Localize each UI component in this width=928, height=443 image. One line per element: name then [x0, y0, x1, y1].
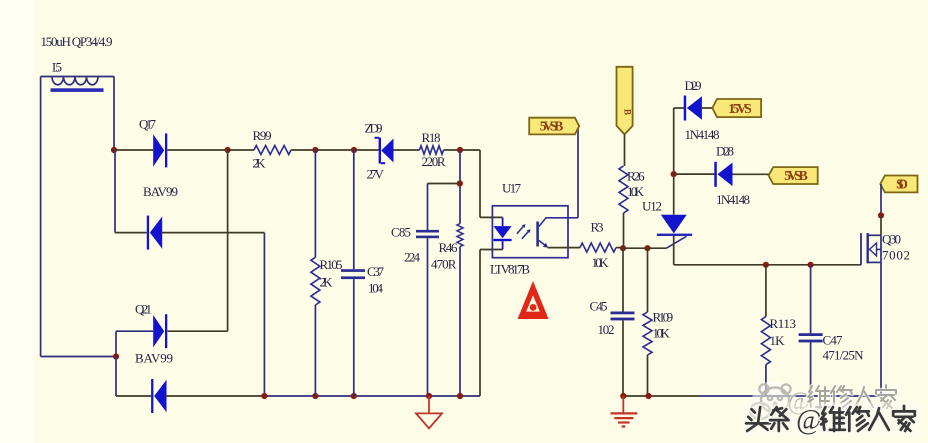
wire	[479, 250, 481, 397]
wire	[115, 357, 117, 397]
wire	[459, 150, 461, 224]
diode Q17 upper	[139, 117, 178, 200]
wire	[480, 249, 503, 251]
wire	[647, 248, 649, 312]
op-amp U17 optocoupler	[490, 181, 578, 277]
wire	[428, 183, 461, 185]
wire	[115, 331, 117, 356]
svg-text:471/25N: 471/25N	[823, 348, 865, 363]
transistor Q30 mosfet	[861, 232, 910, 265]
wire ground rail left	[165, 395, 480, 397]
resistor R105	[311, 257, 343, 305]
wire	[674, 173, 715, 175]
wire	[427, 184, 429, 231]
svg-text:ZD9: ZD9	[365, 121, 383, 136]
wire	[648, 247, 667, 249]
wire	[624, 134, 626, 166]
wire ground rail right	[623, 395, 881, 397]
node D	[351, 147, 357, 153]
net 5VSB flag	[529, 118, 579, 135]
wire	[880, 262, 882, 396]
wire	[291, 149, 315, 151]
wire	[444, 149, 481, 151]
resistor R26	[619, 166, 645, 213]
wire	[880, 215, 882, 235]
wire	[228, 149, 254, 151]
node I	[312, 393, 318, 399]
svg-text:27V: 27V	[367, 167, 385, 182]
wire	[623, 213, 625, 248]
wire	[616, 247, 623, 249]
wire	[427, 238, 429, 396]
capacitor C47	[799, 333, 865, 363]
svg-text:BAV99: BAV99	[143, 184, 178, 199]
svg-text:U17: U17	[502, 181, 522, 196]
svg-text:1N4148: 1N4148	[716, 192, 750, 207]
svg-text:C85: C85	[391, 225, 411, 240]
svg-text:1K: 1K	[770, 333, 786, 348]
wire	[548, 247, 581, 249]
wire	[810, 342, 812, 396]
svg-text:C45: C45	[590, 299, 608, 314]
wire gate row	[674, 264, 861, 266]
net flag vertical	[617, 67, 633, 135]
net 5VSB flag right	[769, 167, 818, 184]
capacitor C37	[341, 264, 385, 296]
wire	[115, 232, 147, 234]
wire	[315, 149, 354, 151]
svg-text:10K: 10K	[592, 255, 610, 270]
watermark	[740, 381, 922, 436]
ground earth	[611, 396, 638, 427]
svg-text:U12: U12	[642, 199, 662, 214]
resistor R46	[431, 224, 463, 272]
resistor R18	[420, 130, 446, 169]
svg-text:1N4148: 1N4148	[685, 127, 720, 142]
svg-text:Q17: Q17	[139, 117, 157, 132]
wire	[623, 247, 648, 249]
svg-text:BAV99: BAV99	[135, 351, 173, 366]
node G	[113, 353, 119, 359]
resistor R99	[253, 128, 292, 171]
wire	[394, 149, 420, 151]
svg-text:B: B	[623, 109, 633, 115]
node P	[808, 262, 814, 268]
svg-text:15VS: 15VS	[728, 101, 752, 116]
node O	[763, 262, 769, 268]
wire	[702, 107, 712, 109]
wire left loop	[41, 77, 116, 357]
diode D28	[714, 144, 750, 208]
node A	[111, 147, 117, 153]
svg-text:R105: R105	[320, 257, 343, 272]
node R	[620, 393, 626, 399]
wire	[168, 149, 228, 151]
wire	[674, 107, 684, 109]
node N	[644, 245, 650, 251]
svg-text:C47: C47	[823, 333, 844, 348]
svg-text:R18: R18	[422, 130, 441, 145]
wire	[577, 126, 579, 218]
wire	[114, 149, 153, 151]
svg-text:220R: 220R	[422, 154, 446, 169]
svg-text:Q30: Q30	[882, 232, 901, 247]
wire	[765, 265, 767, 317]
svg-text:C37: C37	[367, 264, 385, 279]
diode Q21 upper	[135, 302, 173, 366]
svg-text:D28: D28	[716, 144, 734, 159]
svg-text:150uH QP34/4.9: 150uH QP34/4.9	[41, 34, 113, 49]
node H	[261, 393, 267, 399]
svg-text:LTV817B: LTV817B	[490, 262, 530, 277]
node L	[457, 393, 463, 399]
diode Q21 lower	[151, 379, 166, 413]
wire	[227, 150, 229, 331]
svg-text:5VSB: 5VSB	[784, 168, 808, 183]
wire	[479, 150, 481, 217]
wire	[168, 330, 228, 332]
node T	[878, 212, 884, 218]
svg-text:Q21: Q21	[135, 302, 152, 317]
svg-text:470R: 470R	[431, 257, 457, 272]
capacitor C45	[590, 299, 635, 338]
wire	[161, 232, 264, 234]
resistor R109	[643, 310, 673, 356]
svg-text:R113: R113	[770, 316, 797, 331]
net SD flag	[880, 176, 917, 193]
wire	[263, 233, 265, 396]
svg-text:2K: 2K	[320, 275, 334, 290]
wire	[622, 248, 624, 311]
svg-text:R99: R99	[253, 128, 272, 143]
wire	[733, 173, 769, 175]
wire	[810, 265, 812, 334]
resistor R3	[580, 220, 616, 271]
inductor L5	[41, 34, 115, 92]
node J	[351, 393, 357, 399]
node S	[645, 393, 651, 399]
wire	[354, 149, 379, 151]
svg-text:10K: 10K	[627, 184, 645, 199]
wire	[114, 150, 116, 233]
net 15VS flag	[712, 99, 761, 117]
wire	[459, 247, 461, 396]
node E	[457, 147, 463, 153]
svg-text:R26: R26	[627, 169, 645, 184]
svg-text:SD: SD	[896, 177, 908, 192]
svg-text:R3: R3	[591, 220, 604, 235]
wire	[353, 279, 355, 396]
node M	[620, 245, 626, 251]
thyristor U12	[642, 199, 692, 249]
svg-text:7002: 7002	[882, 248, 910, 263]
svg-text:R109: R109	[653, 310, 674, 325]
wire	[353, 150, 355, 269]
svg-text:102: 102	[598, 322, 615, 337]
wire	[314, 150, 316, 257]
zener ZD9	[365, 121, 394, 182]
wire	[880, 184, 882, 215]
svg-text:5VSB: 5VSB	[540, 118, 564, 133]
node K	[426, 393, 432, 399]
wire	[113, 77, 115, 151]
wire	[673, 236, 675, 265]
svg-text:2K: 2K	[253, 156, 267, 171]
svg-text:224: 224	[404, 250, 421, 265]
svg-text:@: @	[796, 405, 822, 436]
wire	[647, 355, 649, 396]
svg-text:R46: R46	[439, 240, 459, 255]
node Q	[671, 171, 677, 177]
svg-text:L5: L5	[52, 60, 62, 75]
svg-text:104: 104	[368, 281, 384, 296]
wire	[314, 305, 316, 396]
ground	[416, 396, 442, 428]
node F	[457, 180, 463, 186]
diode Q17 lower	[147, 216, 162, 250]
wire	[673, 174, 675, 215]
svg-text:10K: 10K	[653, 326, 671, 341]
wire	[116, 395, 151, 397]
resistor R113	[761, 316, 796, 365]
wire	[622, 320, 624, 396]
warning mark	[518, 281, 549, 319]
wire	[116, 330, 153, 332]
node B	[225, 147, 231, 153]
svg-text:D29: D29	[685, 78, 702, 93]
node C	[312, 147, 318, 153]
wire	[765, 365, 767, 396]
diode D29	[684, 78, 720, 142]
wire	[480, 216, 503, 218]
wire	[673, 108, 675, 174]
capacitor C85	[391, 225, 439, 265]
